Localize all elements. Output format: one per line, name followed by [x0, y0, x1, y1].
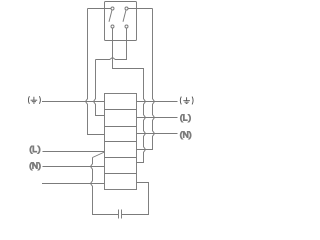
- wire top bus left to S1: [88, 8, 112, 10]
- N wire left: [43, 166, 105, 168]
- svg-text:): ): [38, 161, 41, 171]
- switch S1: [109, 7, 114, 28]
- svg-text:L: L: [32, 144, 37, 154]
- right N wire: [137, 133, 178, 135]
- L wire left: [43, 151, 105, 153]
- wire loop vertical x92.5 with connector chevrons at N and third wires: [91, 158, 119, 215]
- right earth label (⏚): [180, 97, 193, 105]
- wire from capacitor right to block bottom right: [122, 183, 149, 215]
- terminal block: [105, 94, 137, 190]
- right L wire: [137, 117, 178, 119]
- svg-text:): ): [189, 129, 192, 139]
- third wire left (unlabelled): [42, 183, 105, 185]
- switch enclosure box: [105, 2, 137, 41]
- terminal block dividers: [105, 110, 137, 174]
- wire from S2 bottom down and left (wire A) with upward connector bump at S1 wire: [96, 28, 127, 60]
- wire vertical x95.5 with connector chevron at ground, into block cell2: [94, 60, 105, 116]
- capacitor C1: [119, 210, 122, 219]
- wire right riser B x152.5 with connector chevrons, into block right at y149.5: [137, 9, 155, 150]
- wire from S1 bottom down, right, vertical A with connector chevrons, into block right at y162.5: [113, 28, 146, 163]
- svg-text:): ): [188, 112, 191, 122]
- svg-text:L: L: [183, 112, 188, 122]
- svg-text:): ): [38, 144, 41, 154]
- wire top bus S2 to right riser: [128, 8, 153, 10]
- left earth label (⏚): [28, 96, 40, 104]
- right ground wire: [137, 101, 178, 103]
- wire left riser x87.5 with connector chevron at ground wire: [86, 9, 105, 135]
- switch S2: [123, 7, 128, 28]
- ground wire left: [42, 101, 105, 103]
- diagonal from loop vertical to block terminal L: [93, 152, 105, 158]
